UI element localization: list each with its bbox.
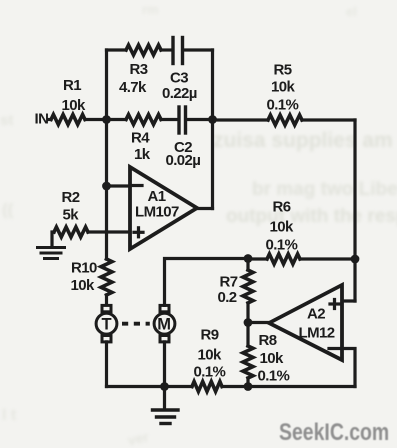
svg-text:R5: R5 (274, 62, 292, 79)
node IN label (35, 111, 49, 128)
node input junction (102, 115, 111, 124)
ghost bleed-through text line 2 (252, 179, 397, 200)
A1 plus pin symbol (134, 228, 143, 237)
svg-text:0.1%: 0.1% (266, 237, 298, 254)
op-amp A2 (269, 285, 342, 360)
ghost smudge left margin (0, 112, 14, 219)
R1 value label (62, 77, 86, 114)
svg-text:0.22µ: 0.22µ (162, 85, 197, 102)
svg-text:R2: R2 (62, 189, 80, 206)
resistor R10 (101, 259, 112, 295)
svg-text:R7: R7 (220, 274, 238, 291)
wire A2 minus input to bottom rail (342, 349, 355, 387)
wire bottom rail right (222, 385, 355, 388)
R5 value label (267, 62, 299, 114)
svg-text:R9: R9 (201, 327, 219, 344)
wire C3 to feedback riser (184, 48, 213, 51)
wire R5 to right rail (302, 118, 355, 121)
ghost smudge bottom left (2, 407, 151, 448)
A2 plus pin symbol (330, 300, 339, 309)
svg-text:l t: l t (2, 407, 17, 424)
motor M (154, 305, 175, 342)
R9 value label (194, 327, 226, 381)
R2 value label (62, 189, 80, 224)
watermark SeekIC.com (279, 418, 389, 445)
ground (R2) (38, 248, 65, 259)
svg-text:zuisa supplies am: zuisa supplies am (213, 129, 393, 152)
wire top path left (107, 48, 127, 51)
svg-text:((: (( (2, 200, 14, 219)
wire A2 plus input to right rail (342, 299, 355, 302)
wire R1 to input node (85, 118, 107, 121)
node A2 output junction (244, 318, 253, 327)
wire bottom rail left (107, 385, 193, 388)
svg-text:5k: 5k (63, 207, 80, 224)
resistor R2 (54, 227, 88, 237)
wire feedback riser (x=212.5 from top path to A1 output) (211, 50, 214, 209)
node M/ground junction (160, 382, 169, 391)
A2 designator label (299, 306, 335, 342)
resistor R6 (267, 254, 300, 264)
wire R3 to C3 (161, 48, 172, 51)
capacitor C2 (179, 107, 186, 133)
svg-text:10k: 10k (270, 219, 294, 236)
resistor R4 (126, 115, 161, 125)
svg-text:C3: C3 (170, 70, 188, 87)
C3 value label (162, 70, 197, 103)
resistor R9 (192, 382, 222, 392)
svg-text:R3: R3 (130, 61, 148, 78)
svg-text:el: el (346, 4, 357, 19)
node feedback junction (208, 115, 217, 124)
ghost bleed-through text line 3 (226, 206, 397, 227)
wire input node riser (vertical x=106.5 from top path down to R10) (105, 50, 108, 259)
wire C2 to feedback node (187, 118, 213, 121)
wire R2 to A1 non-inverting input (88, 230, 130, 233)
svg-text:A2: A2 (307, 306, 325, 323)
svg-text:LM12: LM12 (299, 325, 335, 342)
wire R7 top stub (246, 259, 249, 271)
svg-text:10k: 10k (198, 347, 222, 364)
R6 value label (266, 199, 298, 254)
svg-text:10k: 10k (260, 350, 284, 367)
C2 value label (166, 139, 201, 169)
svg-text:br mag two Liber: br mag two Liber (252, 179, 397, 200)
svg-text:0.1%: 0.1% (267, 97, 299, 114)
svg-text:output with the resp: output with the resp (226, 206, 397, 227)
A2 minus pin symbol (329, 347, 340, 350)
svg-text:SeekIC.com: SeekIC.com (279, 418, 389, 445)
wire R10 to tachometer T (105, 295, 108, 305)
svg-text:IN: IN (35, 111, 49, 128)
node R8/rail junction (244, 382, 253, 391)
M letter label (157, 316, 171, 334)
wire M to bottom rail (163, 342, 166, 387)
wire A2 output to node (248, 321, 269, 324)
wire M to R6 line (165, 259, 249, 306)
svg-text:st: st (0, 112, 13, 129)
svg-text:0.1%: 0.1% (194, 364, 226, 381)
wire ground drop (163, 387, 166, 410)
svg-text:10k: 10k (71, 277, 95, 294)
ground (bottom) (153, 410, 179, 424)
wire node to R6 (248, 257, 267, 260)
R7 value label (218, 274, 238, 307)
wire R8 to bottom rail (246, 378, 249, 387)
ghost mark top (142, 2, 357, 19)
svg-text:R8: R8 (259, 332, 277, 349)
resistor R5 (268, 115, 302, 125)
ghost bleed-through text line 1 (213, 129, 393, 152)
svg-text:R4: R4 (131, 130, 150, 147)
A1 designator label (135, 188, 179, 221)
A1 minus pin symbol (133, 184, 142, 187)
wire T to bottom rail (105, 342, 108, 387)
wire R7 to output node (246, 303, 249, 323)
node A1 minus tap (102, 182, 111, 191)
svg-text:10k: 10k (62, 97, 86, 114)
svg-text:R1: R1 (63, 77, 81, 94)
svg-text:0.02µ: 0.02µ (166, 152, 201, 169)
wire R6 to right rail (300, 257, 355, 260)
resistor R7 (243, 270, 253, 303)
R3 value label (119, 61, 148, 96)
wire R4 to C2 (161, 118, 178, 121)
op-amp A1 (130, 167, 197, 249)
resistor R3 (126, 45, 161, 55)
svg-text:LM107: LM107 (135, 204, 179, 221)
R4 value label (131, 130, 151, 164)
svg-text:0.2: 0.2 (218, 289, 237, 306)
wire R2 to ground drop (52, 232, 54, 246)
wire right rail (x=355 from R5 down to A2 + input) (353, 120, 356, 301)
mechanical coupling dashed link T to M (122, 322, 150, 326)
svg-text:A1: A1 (148, 188, 166, 205)
resistor R8 (243, 346, 253, 378)
svg-text:rm: rm (142, 2, 159, 17)
wire R8 top stub (246, 323, 249, 347)
svg-text:M: M (157, 316, 171, 334)
wire A1 output to feedback riser (197, 207, 213, 210)
svg-text:0.1%: 0.1% (258, 368, 290, 385)
svg-text:R6: R6 (273, 199, 291, 216)
wire minus tap to A1 inverting input (107, 184, 131, 187)
svg-text:4.7k: 4.7k (119, 79, 147, 96)
svg-text:1k: 1k (134, 146, 151, 163)
wire input node to R4 (107, 118, 127, 121)
svg-text:R10: R10 (71, 260, 97, 277)
R8 value label (258, 332, 290, 385)
node R6/R7 junction (244, 254, 253, 263)
wire feedback node to R5 (213, 118, 269, 121)
capacitor C3 (173, 38, 183, 64)
T letter label (102, 316, 112, 334)
wire IN stub (49, 118, 52, 121)
tachometer T (96, 305, 117, 342)
resistor R1 (51, 115, 85, 125)
R10 value label (71, 260, 97, 295)
svg-text:10k: 10k (271, 79, 295, 96)
svg-text:T: T (102, 316, 112, 334)
node rail/R6 junction (351, 255, 360, 264)
